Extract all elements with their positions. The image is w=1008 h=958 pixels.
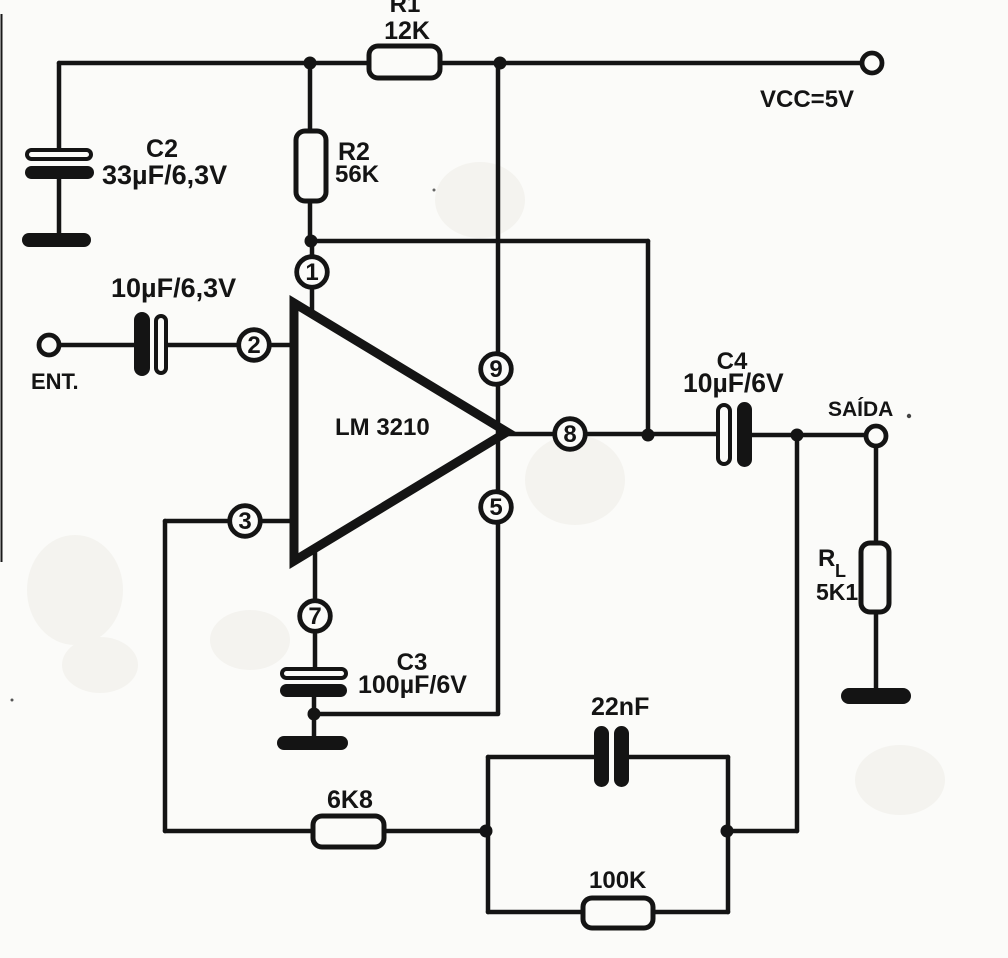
svg-text:C2: C2 bbox=[146, 135, 178, 163]
op-amp U1 LM3210 triangle bbox=[294, 303, 507, 561]
wire network left edge bbox=[486, 757, 491, 912]
wire R2 top bbox=[308, 63, 313, 131]
svg-text:22nF: 22nF bbox=[591, 693, 649, 721]
svg-text:R1: R1 bbox=[390, 0, 421, 18]
capacitor 22nF plates bbox=[594, 726, 629, 787]
svg-text:R: R bbox=[818, 545, 835, 572]
wire pin 3 horizontal bbox=[165, 519, 296, 524]
wire output bbox=[505, 432, 718, 437]
wire C3 to ground bbox=[312, 696, 317, 738]
svg-text:1: 1 bbox=[305, 259, 318, 286]
svg-text:8: 8 bbox=[563, 421, 576, 448]
pin 9 bbox=[481, 354, 512, 385]
wire C2 to ground bbox=[57, 178, 62, 236]
node junction output bbox=[642, 429, 655, 442]
wire network right edge bbox=[726, 757, 731, 912]
node junction top rail left bbox=[304, 57, 317, 70]
wire 6K8 right bbox=[384, 829, 488, 834]
svg-text:56K: 56K bbox=[335, 161, 380, 188]
svg-text:100µF/6V: 100µF/6V bbox=[358, 671, 467, 699]
wire to network junction bbox=[727, 829, 797, 834]
resistor R1 12K bbox=[369, 46, 440, 78]
wire C2 top drop bbox=[57, 63, 62, 150]
wire C4 to saida bbox=[750, 433, 866, 438]
svg-text:SAÍDA: SAÍDA bbox=[828, 398, 893, 421]
resistor 6K8 bbox=[313, 816, 384, 847]
capacitor C4 plates bbox=[718, 402, 752, 467]
pin 8 bbox=[555, 419, 586, 450]
wire 100K left bbox=[488, 910, 583, 915]
svg-text:10µF/6V: 10µF/6V bbox=[683, 368, 784, 398]
node junction C3 bbox=[308, 708, 321, 721]
pin 3 bbox=[230, 506, 261, 537]
scan speck left low bbox=[11, 699, 14, 702]
node junction network right bbox=[721, 825, 734, 838]
wire left feedback vertical bbox=[163, 521, 168, 831]
terminal SAIDA bbox=[866, 426, 886, 446]
svg-text:LM 3210: LM 3210 bbox=[335, 414, 430, 441]
wire 6K8 left bbox=[165, 829, 313, 834]
wire R2 bottom bbox=[308, 201, 313, 241]
svg-text:L: L bbox=[835, 561, 846, 581]
pin 1 bbox=[297, 257, 328, 288]
capacitor C2 plates bbox=[25, 150, 94, 179]
wire saida to RL bbox=[874, 446, 879, 543]
ground below C2 bbox=[22, 233, 91, 247]
wire 22nF right bbox=[628, 755, 728, 760]
svg-text:5: 5 bbox=[489, 494, 502, 521]
svg-text:VCC=5V: VCC=5V bbox=[760, 86, 854, 113]
wire top rail right bbox=[440, 61, 862, 66]
resistor 100K bbox=[583, 898, 653, 928]
pin 7 bbox=[300, 601, 331, 632]
wire top rail left bbox=[59, 61, 369, 66]
wire feedback down to output bbox=[646, 241, 651, 435]
scan border artifact left edge bbox=[1, 14, 3, 562]
wire input left bbox=[59, 343, 136, 348]
wire pin 1 bbox=[310, 241, 315, 316]
resistor R2 56K bbox=[296, 131, 326, 201]
wire 22nF left bbox=[488, 755, 596, 760]
svg-text:6K8: 6K8 bbox=[327, 786, 373, 814]
terminal ENT bbox=[39, 335, 59, 355]
scan speck near saida bbox=[907, 414, 911, 418]
wire output down feedback bbox=[795, 435, 800, 831]
node junction top rail right bbox=[494, 57, 507, 70]
wire RL to ground bbox=[874, 610, 879, 690]
wire feedback top horizontal bbox=[311, 239, 648, 244]
svg-text:33µF/6,3V: 33µF/6,3V bbox=[102, 160, 227, 190]
svg-text:9: 9 bbox=[489, 356, 502, 383]
terminal VCC bbox=[862, 53, 882, 73]
node junction R2 bottom bbox=[305, 235, 318, 248]
ground below C3 bbox=[277, 736, 348, 750]
svg-text:7: 7 bbox=[308, 603, 321, 630]
capacitor C1 10uF input plates bbox=[134, 312, 166, 376]
wire input right bbox=[166, 343, 296, 348]
node junction 6K8 network bbox=[480, 825, 493, 838]
faint scan bleed-through blobs bbox=[27, 162, 945, 815]
svg-text:10µF/6,3V: 10µF/6,3V bbox=[111, 273, 236, 303]
svg-text:100K: 100K bbox=[589, 867, 647, 894]
wire C3 junction to bypass line bbox=[314, 712, 498, 717]
svg-text:5K1: 5K1 bbox=[816, 579, 858, 605]
svg-text:12K: 12K bbox=[384, 17, 430, 45]
pin 2 bbox=[239, 330, 270, 361]
node junction saida branch bbox=[791, 429, 804, 442]
wire 100K right bbox=[653, 910, 728, 915]
scan speck mid bbox=[433, 189, 436, 192]
resistor RL 5K1 bbox=[861, 543, 889, 612]
capacitor C3 plates bbox=[280, 669, 347, 697]
wire pin 7 bbox=[313, 551, 318, 670]
svg-text:ENT.: ENT. bbox=[31, 369, 79, 394]
ground below RL bbox=[841, 688, 911, 704]
pin 5 bbox=[481, 492, 512, 523]
wire bypass vertical pins 9/5 bbox=[496, 63, 501, 714]
svg-text:3: 3 bbox=[238, 508, 251, 535]
svg-text:2: 2 bbox=[247, 332, 260, 359]
